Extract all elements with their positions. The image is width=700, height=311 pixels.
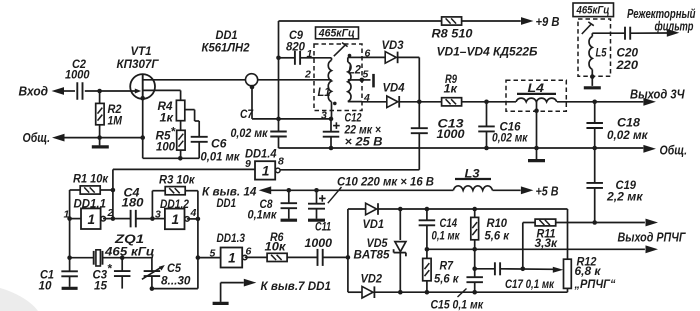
svg-text:5,6 к: 5,6 к bbox=[434, 272, 459, 286]
svg-text:1к: 1к bbox=[444, 82, 458, 96]
svg-text:R3 10к: R3 10к bbox=[159, 173, 195, 187]
svg-text:1: 1 bbox=[262, 164, 270, 179]
svg-text:6,8 к: 6,8 к bbox=[575, 264, 602, 278]
svg-text:10: 10 bbox=[39, 279, 52, 293]
svg-text:C17 0,1 мк: C17 0,1 мк bbox=[505, 277, 555, 291]
svg-text:465кГц: 465кГц bbox=[318, 27, 355, 39]
svg-text:465кГц: 465кГц bbox=[576, 5, 610, 17]
svg-text:R8 510: R8 510 bbox=[432, 27, 473, 41]
svg-text:L4: L4 bbox=[528, 83, 545, 95]
svg-text:5,6 к: 5,6 к bbox=[485, 229, 510, 243]
svg-text:2,2 мк: 2,2 мк bbox=[606, 190, 643, 204]
svg-text:Вход: Вход bbox=[19, 84, 49, 99]
svg-text:8...30: 8...30 bbox=[161, 274, 191, 288]
svg-text:0,1мк: 0,1мк bbox=[248, 208, 278, 222]
svg-text:1000: 1000 bbox=[65, 68, 90, 82]
svg-text:C10 220 мк × 16 В: C10 220 мк × 16 В bbox=[337, 175, 434, 189]
svg-text:1М: 1М bbox=[108, 114, 123, 128]
svg-text:DD1.1: DD1.1 bbox=[74, 197, 107, 211]
svg-text:DD1: DD1 bbox=[217, 196, 237, 210]
svg-text:100: 100 bbox=[156, 140, 175, 154]
svg-text:L5: L5 bbox=[596, 48, 607, 60]
svg-text:К561ЛН2: К561ЛН2 bbox=[202, 41, 250, 55]
svg-text:0,02 мк: 0,02 мк bbox=[231, 126, 269, 140]
svg-text:0,01 мк: 0,01 мк bbox=[201, 150, 241, 164]
svg-text:10к: 10к bbox=[265, 240, 287, 254]
svg-text:465 кГц: 465 кГц bbox=[104, 245, 155, 259]
svg-text:3: 3 bbox=[155, 209, 161, 221]
svg-text:5: 5 bbox=[210, 248, 216, 260]
svg-text:„РПЧГ“: „РПЧГ“ bbox=[574, 277, 616, 291]
svg-text:180: 180 bbox=[122, 196, 144, 210]
svg-text:1: 1 bbox=[88, 212, 96, 227]
svg-text:L3: L3 bbox=[465, 169, 481, 181]
svg-text:DD1.3: DD1.3 bbox=[217, 231, 246, 245]
svg-text:0,02 мк: 0,02 мк bbox=[607, 128, 648, 142]
svg-text:L1: L1 bbox=[318, 87, 331, 99]
svg-text:BAT85: BAT85 bbox=[354, 248, 390, 262]
svg-text:VD2: VD2 bbox=[361, 272, 383, 286]
svg-text:+5 В: +5 В bbox=[536, 184, 559, 199]
svg-text:Общ.: Общ. bbox=[660, 143, 688, 158]
svg-text:1: 1 bbox=[307, 48, 313, 60]
svg-text:VT1: VT1 bbox=[131, 44, 152, 58]
svg-text:Выход 3Ч: Выход 3Ч bbox=[630, 87, 685, 102]
svg-text:1: 1 bbox=[228, 251, 236, 266]
svg-text:1к: 1к bbox=[160, 111, 174, 125]
svg-text:VD3: VD3 bbox=[382, 38, 404, 52]
svg-text:+9 В: +9 В bbox=[536, 14, 560, 29]
svg-text:1: 1 bbox=[171, 212, 179, 227]
svg-text:К выв.7 DD1: К выв.7 DD1 bbox=[261, 279, 332, 293]
svg-text:6: 6 bbox=[246, 246, 252, 258]
svg-text:1000: 1000 bbox=[437, 127, 465, 141]
svg-text:15: 15 bbox=[94, 279, 107, 293]
svg-text:VD4: VD4 bbox=[383, 81, 405, 95]
svg-text:× 25 В: × 25 В bbox=[345, 135, 383, 149]
svg-text:4: 4 bbox=[190, 207, 197, 219]
svg-text:C6: C6 bbox=[211, 137, 227, 151]
svg-text:C15 0,1 мк: C15 0,1 мк bbox=[431, 298, 484, 311]
svg-text:DD1.2: DD1.2 bbox=[160, 197, 189, 211]
svg-text:0,1 мк: 0,1 мк bbox=[432, 229, 461, 243]
svg-text:2: 2 bbox=[107, 207, 114, 219]
svg-text:VD1–VD4 КД522Б: VD1–VD4 КД522Б bbox=[437, 45, 538, 59]
svg-text:КП307Г: КП307Г bbox=[117, 57, 160, 71]
svg-text:8: 8 bbox=[278, 156, 284, 168]
svg-text:R7: R7 bbox=[440, 259, 455, 273]
svg-text:1000: 1000 bbox=[305, 236, 333, 250]
svg-text:3,3к: 3,3к bbox=[535, 236, 558, 250]
svg-text:820: 820 bbox=[286, 40, 305, 54]
svg-text:R1 10к: R1 10к bbox=[73, 172, 109, 186]
svg-text:220: 220 bbox=[615, 58, 638, 72]
svg-text:Выход РПЧГ: Выход РПЧГ bbox=[618, 230, 687, 245]
svg-text:0,02 мк: 0,02 мк bbox=[492, 131, 528, 145]
svg-text:L2: L2 bbox=[348, 65, 362, 77]
svg-text:3: 3 bbox=[321, 110, 327, 122]
svg-text:1: 1 bbox=[64, 209, 70, 221]
svg-text:9: 9 bbox=[245, 158, 251, 170]
svg-text:2: 2 bbox=[304, 69, 311, 81]
svg-text:VD1: VD1 bbox=[363, 217, 385, 231]
svg-text:Общ.: Общ. bbox=[23, 130, 51, 145]
